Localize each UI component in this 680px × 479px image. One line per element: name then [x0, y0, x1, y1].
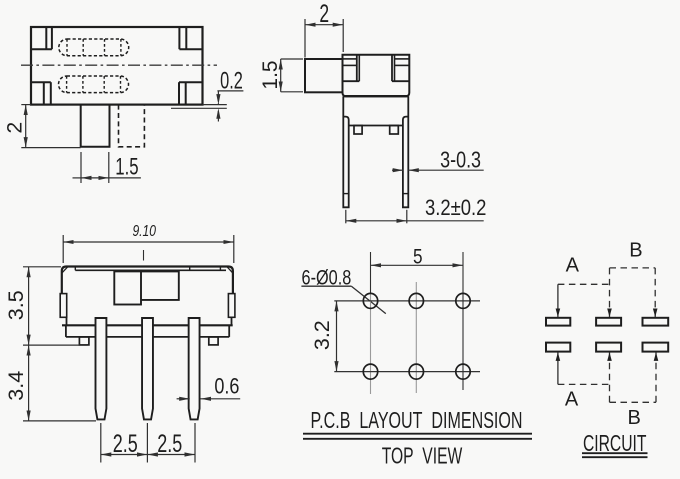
- side view: middle pin stub right: [390, 126, 399, 135]
- svg-text:A: A: [565, 388, 579, 410]
- svg-text:2: 2: [4, 122, 27, 134]
- pcb: hole row1 col1: [363, 293, 377, 308]
- pcb: hole row1 col3: [456, 293, 470, 308]
- side view: middle pin stub left: [354, 126, 362, 135]
- dimension 3-0.3 (terminal thickness): [392, 147, 484, 173]
- top view: corner tab top-left: [31, 27, 52, 49]
- top view: corner tab bottom-right: [179, 82, 203, 104]
- svg-text:3.4: 3.4: [4, 371, 28, 401]
- dimension 3.4 (pin length): [4, 345, 96, 421]
- circuit: contact row2 col1: [546, 343, 570, 352]
- circuit: common wire top (to col2): [609, 268, 611, 317]
- svg-text:0.6: 0.6: [214, 375, 239, 399]
- side view: left metal tab: [343, 55, 360, 81]
- svg-text:3.5: 3.5: [4, 290, 28, 320]
- svg-text:TOP VIEW: TOP VIEW: [382, 442, 463, 468]
- side view: base plate line: [349, 125, 403, 127]
- top view: tab bottom edge extension line: [171, 107, 227, 109]
- svg-text:2.5: 2.5: [157, 429, 182, 458]
- pcb: dimension 3.2 (hole pitch vertical): [310, 301, 337, 372]
- circuit: net A top wire: [558, 284, 610, 317]
- dimension 1.5 (pin width, below top view): [73, 152, 141, 183]
- front view: knob right part: [141, 271, 179, 300]
- svg-text:3-0.3: 3-0.3: [440, 147, 481, 173]
- svg-text:3.2±0.2: 3.2±0.2: [425, 197, 486, 221]
- side view: right leg: [403, 96, 408, 207]
- front view: right side tab: [228, 294, 235, 318]
- svg-text:9.10: 9.10: [132, 221, 156, 239]
- dimension 2.5 pin pitch left: [101, 423, 195, 463]
- svg-text:0.2: 0.2: [220, 67, 243, 94]
- front view: right foot: [209, 337, 218, 345]
- side view: right metal tab: [392, 55, 409, 81]
- svg-text:B: B: [628, 407, 641, 429]
- dimension 2 (knob width, above side view): [305, 0, 343, 58]
- svg-text:1.5: 1.5: [115, 154, 138, 181]
- front view: corner chamfer marks: [62, 267, 232, 273]
- front view: terminal pin 1: [96, 318, 107, 419]
- circuit: contact row1 col3: [643, 318, 669, 326]
- dimension 3.5 (body height): [4, 267, 88, 345]
- pcb: row centerline 2: [334, 371, 480, 373]
- dimension 2 (pin length, left of top view): [4, 105, 81, 148]
- circuit: contact row1 col1: [546, 318, 570, 326]
- pcb: dimension 5 (hole pitch horizontal): [371, 245, 464, 294]
- svg-text:1.5: 1.5: [259, 60, 282, 89]
- front view: left foot: [79, 337, 89, 345]
- top view: corner tab bottom-left: [31, 82, 51, 104]
- circuit: contact row1 col2: [596, 318, 621, 326]
- front view: terminal pin 3: [189, 318, 200, 419]
- front view: lower side edges: [67, 317, 232, 325]
- svg-text:CIRCUIT: CIRCUIT: [583, 430, 647, 456]
- pcb: column centerline 3: [462, 294, 464, 390]
- pcb: hole row2 col2: [409, 364, 423, 379]
- circuit: common wire bottom (to col2): [609, 352, 611, 402]
- dimension 3.2±0.2 (leg span): [346, 197, 487, 224]
- svg-text:2.5: 2.5: [113, 429, 138, 458]
- circuit: net A bottom wire: [558, 352, 610, 384]
- circuit: contact row2 col3: [643, 343, 669, 352]
- side view: left leg: [343, 96, 348, 207]
- pcb: row centerline 1: [334, 300, 480, 302]
- svg-text:B: B: [629, 240, 642, 262]
- pcb: column centerline 1: [370, 294, 372, 394]
- front view: terminal pin 2: [142, 318, 153, 419]
- top view: corner tab top-right: [179, 27, 202, 49]
- pcb: hole row2 col3: [456, 364, 470, 379]
- top view: solid terminal pin below body: [81, 105, 110, 147]
- dimension 9.10 (overall width): [63, 221, 234, 263]
- circuit: net B top wire: [610, 268, 656, 317]
- top view: lower slot (hidden line): [59, 76, 129, 93]
- dimension 2.5 pin pitch right: [147, 429, 195, 458]
- pcb: label 6-Ø0.8 with leader: [301, 266, 385, 313]
- front view: cover seam line: [75, 267, 226, 271]
- pcb: hole row2 col1: [363, 364, 377, 379]
- top view: body bottom extension line: [203, 104, 227, 106]
- pcb: hole row1 col2: [409, 293, 423, 308]
- top view: horizontal centerline: [21, 64, 217, 66]
- top view: upper slot (hidden line): [59, 39, 129, 56]
- dimension 1.5 (knob height, left of side view): [259, 59, 303, 92]
- svg-text:A: A: [566, 255, 580, 277]
- side view: body outline: [343, 55, 410, 96]
- top view: switch body outline: [31, 27, 203, 105]
- svg-text:3.2: 3.2: [310, 320, 334, 350]
- side view: actuator knob: [305, 59, 343, 92]
- dimension 0.2 (tab protrusion): [217, 67, 243, 121]
- side view: body bottom heavy line: [344, 95, 408, 97]
- circuit: contact row2 col2: [596, 343, 621, 352]
- front view: bottom lip: [66, 325, 229, 337]
- pcb: column centerline 2: [415, 282, 417, 393]
- front view: body bottom line: [62, 324, 233, 326]
- dimension 0.6 (pin width): [177, 375, 241, 399]
- svg-text:P.C.B LAYOUT DIMENSION: P.C.B LAYOUT DIMENSION: [311, 407, 523, 433]
- front view: body upper outline: [62, 267, 233, 294]
- circuit: net B bottom wire: [610, 352, 657, 402]
- front view: knob left part: [114, 271, 141, 304]
- top view: hidden terminal pin (dashed): [119, 105, 145, 147]
- pcb: title underline double: [303, 434, 532, 439]
- svg-text:2: 2: [319, 0, 329, 28]
- circuit: title underline double: [582, 453, 648, 457]
- svg-text:5: 5: [413, 245, 423, 269]
- front view: left side tab: [60, 294, 66, 318]
